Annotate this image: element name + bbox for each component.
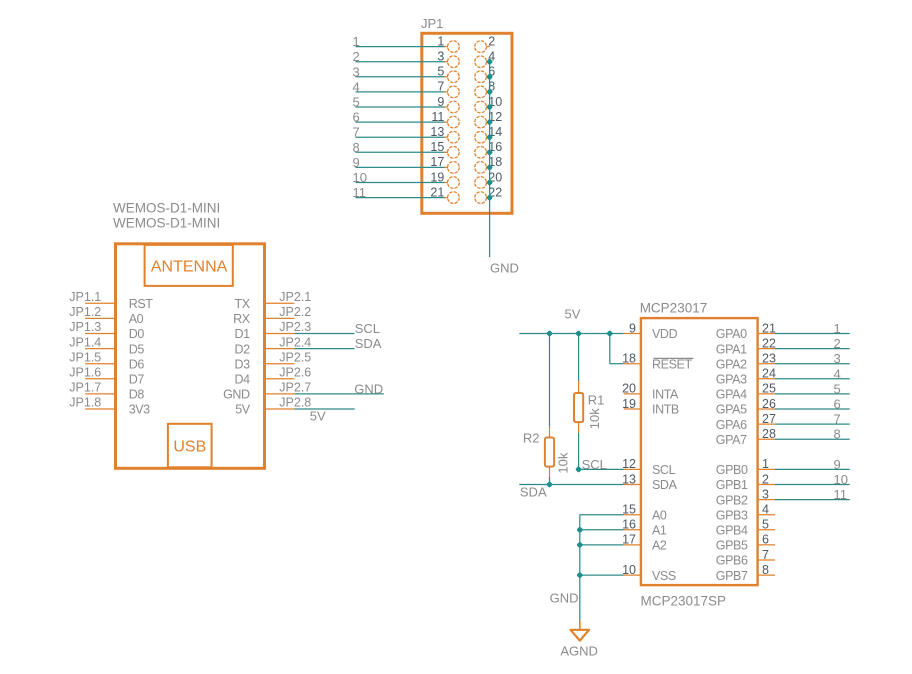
svg-text:JP1.8: JP1.8	[69, 396, 101, 410]
JP1 pin 21 stub	[444, 197, 448, 199]
junction JP1 pin 8	[486, 88, 493, 95]
svg-text:11: 11	[834, 487, 848, 502]
MCP pin 16 (A1) stub	[624, 529, 641, 531]
svg-text:SCL: SCL	[652, 463, 676, 477]
svg-text:3: 3	[353, 64, 360, 79]
svg-text:GPA4: GPA4	[716, 388, 747, 402]
WEMOS left pin JP1.5 stub	[85, 363, 115, 365]
JP1 pin 14 stub	[486, 136, 490, 138]
JP1 pin 13 stub	[444, 136, 448, 138]
wire net 11 to JP1 pin 21	[356, 197, 445, 199]
JP1 pin 12 stub	[486, 121, 490, 123]
svg-text:6: 6	[353, 110, 360, 125]
WEMOS right pin JP2.1 stub	[265, 302, 295, 304]
wire R1 top	[578, 334, 580, 382]
R1 lead bottom	[578, 421, 580, 434]
svg-text:6: 6	[834, 397, 841, 412]
R1 lead top	[578, 381, 580, 394]
connector JP1	[353, 16, 519, 275]
MCP pin 25 (GPA4) stub	[757, 393, 775, 395]
svg-text:SCL: SCL	[582, 457, 607, 472]
svg-text:JP2.8: JP2.8	[279, 396, 311, 410]
svg-text:21: 21	[762, 321, 776, 335]
svg-text:9: 9	[629, 321, 636, 335]
wire net 3 to JP1 pin 5	[356, 76, 445, 78]
svg-text:JP1.6: JP1.6	[69, 366, 101, 380]
svg-text:GPB0: GPB0	[716, 463, 748, 477]
JP1 pin 6 circle	[475, 71, 487, 83]
svg-text:17: 17	[430, 155, 444, 169]
svg-text:D4: D4	[235, 373, 251, 387]
svg-text:3V3: 3V3	[129, 403, 150, 417]
svg-text:GPB7: GPB7	[716, 569, 748, 583]
svg-text:A0: A0	[652, 508, 667, 522]
MCP pin 10 (VSS) stub	[624, 574, 641, 576]
resistor R2 body	[545, 438, 554, 467]
JP1 pin 14 circle	[475, 131, 487, 143]
svg-text:GPA5: GPA5	[716, 403, 747, 417]
svg-text:D2: D2	[235, 342, 251, 356]
svg-text:19: 19	[622, 397, 636, 411]
WEMOS left pin JP1.2 stub	[85, 317, 115, 319]
MCP pin 7 (GPB6) stub	[757, 559, 775, 561]
MCP pin 5 (GPB4) stub	[757, 529, 775, 531]
WEMOS right pin JP2.8 stub	[265, 408, 295, 410]
svg-text:A2: A2	[652, 539, 667, 553]
MCP pin 1 (GPB0) stub	[757, 468, 775, 470]
svg-text:9: 9	[437, 95, 444, 109]
junction 5V rail x=578.6	[575, 330, 582, 337]
svg-text:21: 21	[430, 185, 444, 199]
wire net 2 to JP1 pin 3	[356, 61, 445, 63]
svg-text:25: 25	[762, 382, 776, 396]
svg-text:28: 28	[762, 427, 776, 441]
svg-text:GPB6: GPB6	[716, 554, 748, 568]
R2 lead bottom	[549, 466, 551, 478]
WEMOS right pin JP2.3 stub	[265, 333, 295, 335]
svg-text:8: 8	[834, 427, 841, 442]
wire net 4 to JP1 pin 7	[356, 91, 445, 93]
IC U2 MCP23017	[519, 300, 849, 658]
svg-text:MCP23017: MCP23017	[640, 300, 708, 315]
R2 lead top	[549, 426, 551, 439]
svg-text:5V: 5V	[235, 403, 251, 417]
USB sub-box	[168, 424, 212, 468]
wire net 7 to JP1 pin 13	[356, 136, 445, 138]
svg-text:GPB3: GPB3	[716, 508, 748, 522]
svg-text:5: 5	[437, 65, 444, 79]
svg-text:5: 5	[353, 95, 360, 110]
svg-text:JP1.1: JP1.1	[69, 290, 101, 304]
MCP pin 13 (SDA) stub	[624, 484, 641, 486]
svg-text:20: 20	[622, 382, 636, 396]
JP1 pin 17 stub	[444, 166, 448, 168]
JP1 pin 3 circle	[448, 56, 460, 68]
svg-text:R2: R2	[523, 430, 540, 445]
JP1 pin 1 stub	[444, 46, 448, 48]
svg-text:3: 3	[762, 487, 769, 501]
svg-text:RESET: RESET	[652, 357, 692, 371]
svg-text:INTB: INTB	[652, 403, 679, 417]
svg-text:13: 13	[622, 472, 636, 486]
svg-text:10k: 10k	[556, 452, 571, 473]
wire net 5 from GPA4	[775, 393, 850, 395]
JP1 pin 10 stub	[486, 106, 490, 108]
svg-text:27: 27	[762, 412, 776, 426]
svg-text:18: 18	[622, 352, 636, 366]
MCP pin 4 (GPB3) stub	[757, 514, 775, 516]
svg-text:JP2.3: JP2.3	[279, 320, 311, 334]
JP1 pin 9 circle	[448, 101, 460, 113]
JP1 pin 21 circle	[448, 192, 460, 204]
svg-text:9: 9	[834, 457, 841, 472]
svg-text:16: 16	[622, 518, 636, 532]
svg-text:D1: D1	[235, 327, 251, 341]
svg-text:VDD: VDD	[652, 327, 678, 341]
svg-text:ANTENNA: ANTENNA	[151, 259, 228, 276]
svg-text:24: 24	[762, 367, 776, 381]
wire net 10 from GPB1	[775, 484, 850, 486]
svg-text:GPB1: GPB1	[716, 478, 748, 492]
wire net 8 from GPA7	[775, 438, 850, 440]
junction JP1 pin 12	[486, 119, 493, 126]
JP1 pin 11 circle	[448, 116, 460, 128]
wire SCL to MCP pin 12	[579, 468, 624, 470]
svg-text:2: 2	[834, 336, 841, 351]
svg-text:GPA7: GPA7	[716, 433, 747, 447]
wire net 9 to JP1 pin 17	[356, 166, 445, 168]
junction VSS	[576, 572, 583, 579]
svg-text:GPA6: GPA6	[716, 418, 747, 432]
JP1 pin 16 stub	[486, 151, 490, 153]
module U WEMOS-D1-MINI	[69, 201, 384, 469]
MCP pin 12 (SCL) stub	[624, 468, 641, 470]
svg-text:5V: 5V	[310, 408, 326, 423]
svg-text:9: 9	[353, 155, 360, 170]
JP1 pin 8 circle	[475, 86, 487, 98]
svg-text:23: 23	[762, 352, 776, 366]
JP1 connector body	[422, 33, 512, 213]
svg-text:10k: 10k	[587, 408, 602, 429]
MCP pin 26 (GPA5) stub	[757, 408, 775, 410]
svg-text:GPB4: GPB4	[716, 524, 748, 538]
wire SCL from WEMOS D1	[294, 333, 354, 335]
svg-text:1: 1	[353, 34, 360, 49]
wire A1 branch	[580, 529, 624, 531]
MCP pin 3 (GPB2) stub	[757, 499, 775, 501]
svg-text:3: 3	[437, 50, 444, 64]
wire net 4 from GPA3	[775, 378, 850, 380]
svg-text:GPB5: GPB5	[716, 539, 748, 553]
wire net 10 to JP1 pin 19	[356, 182, 445, 184]
svg-text:GPA2: GPA2	[716, 357, 747, 371]
junction 5V rail x=609.8	[606, 330, 613, 337]
JP1 pin 9 stub	[444, 106, 448, 108]
svg-text:2: 2	[353, 49, 360, 64]
AGND symbol lead	[579, 621, 581, 630]
svg-text:8: 8	[762, 563, 769, 577]
MCP pin 9 (VDD) stub	[624, 333, 641, 335]
svg-text:JP1.7: JP1.7	[69, 381, 101, 395]
svg-text:D5: D5	[129, 342, 145, 356]
junction A1	[576, 526, 583, 533]
svg-text:SCL: SCL	[355, 321, 380, 336]
MCP pin 18 (RESET) stub	[624, 363, 641, 365]
svg-text:4: 4	[834, 366, 841, 381]
svg-text:6: 6	[762, 533, 769, 547]
svg-text:GND: GND	[550, 591, 579, 606]
svg-text:INTA: INTA	[652, 388, 679, 402]
JP1 pin 18 stub	[486, 166, 490, 168]
WEMOS left pin JP1.1 stub	[85, 302, 115, 304]
junction SCL	[575, 466, 582, 473]
svg-text:D8: D8	[129, 388, 145, 402]
wire net 8 to JP1 pin 15	[356, 151, 445, 153]
WEMOS right pin JP2.5 stub	[265, 363, 295, 365]
svg-text:JP2.6: JP2.6	[279, 366, 311, 380]
svg-text:10: 10	[353, 170, 367, 185]
wire A2 branch	[580, 544, 624, 546]
svg-text:USB: USB	[173, 438, 206, 455]
MCP pin 8 (GPB7) stub	[757, 574, 775, 576]
JP1 pin 1 circle	[448, 41, 460, 53]
WEMOS right pin JP2.7 stub	[265, 393, 295, 395]
wire branch to RESET	[609, 334, 611, 364]
wire 5V rail	[519, 333, 623, 335]
MCP pin 22 (GPA1) stub	[757, 348, 775, 350]
JP1 pin 4 circle	[475, 56, 487, 68]
svg-text:D3: D3	[235, 357, 251, 371]
JP1 pin 22 stub	[486, 197, 490, 199]
junction SDA	[546, 481, 553, 488]
WEMOS left pin JP1.4 stub	[85, 348, 115, 350]
svg-text:GND: GND	[354, 381, 383, 396]
junction A2	[576, 541, 583, 548]
wire net 3 from GPA2	[775, 363, 850, 365]
svg-text:R1: R1	[588, 393, 605, 408]
JP1 pin 3 stub	[444, 61, 448, 63]
svg-text:7: 7	[834, 412, 841, 427]
svg-text:JP1.3: JP1.3	[69, 320, 101, 334]
JP1 pin 5 stub	[444, 76, 448, 78]
JP1 pin 12 circle	[475, 116, 487, 128]
svg-text:10: 10	[622, 563, 636, 577]
svg-text:7: 7	[353, 125, 360, 140]
ground symbol AGND	[571, 630, 590, 641]
JP1 pin 7 stub	[444, 91, 448, 93]
svg-text:D0: D0	[129, 327, 145, 341]
MCP pin 28 (GPA7) stub	[757, 438, 775, 440]
JP1 pin 10 circle	[475, 101, 487, 113]
svg-text:JP2.5: JP2.5	[279, 350, 311, 364]
svg-text:SDA: SDA	[652, 478, 678, 492]
junction JP1 pin 14	[486, 134, 493, 141]
svg-text:2: 2	[762, 472, 769, 486]
svg-text:11: 11	[431, 110, 444, 124]
wire A0 branch	[580, 514, 624, 516]
wire GND from WEMOS	[294, 393, 383, 395]
svg-text:D7: D7	[129, 373, 145, 387]
svg-text:5: 5	[762, 518, 769, 532]
svg-text:19: 19	[430, 170, 444, 184]
wire net 6 to JP1 pin 11	[356, 121, 445, 123]
svg-text:GPA3: GPA3	[716, 373, 747, 387]
junction JP1 pin 22	[486, 194, 493, 201]
MCP pin 20 (INTA) stub	[624, 393, 641, 395]
MCP pin 23 (GPA2) stub	[757, 363, 775, 365]
svg-text:15: 15	[430, 140, 444, 154]
WEMOS left pin JP1.7 stub	[85, 393, 115, 395]
svg-text:11: 11	[353, 185, 367, 200]
JP1 pin 11 stub	[444, 121, 448, 123]
svg-text:JP2.4: JP2.4	[279, 335, 311, 349]
svg-text:VSS: VSS	[652, 569, 676, 583]
MCP pin 2 (GPB1) stub	[757, 484, 775, 486]
svg-text:GPA0: GPA0	[716, 327, 747, 341]
svg-text:10: 10	[834, 472, 848, 487]
wire net 2 from GPA1	[775, 348, 850, 350]
svg-text:1: 1	[762, 457, 769, 471]
wire net 1 from GPA0	[775, 333, 850, 335]
svg-text:5: 5	[834, 381, 841, 396]
junction JP1 pin 6	[486, 73, 493, 80]
svg-text:JP2.2: JP2.2	[279, 305, 311, 319]
wire GND bus from JP1 even pins	[489, 62, 491, 258]
svg-text:12: 12	[622, 457, 636, 471]
wire net 5 to JP1 pin 9	[356, 106, 445, 108]
svg-text:D6: D6	[129, 357, 145, 371]
MCP pin 21 (GPA0) stub	[757, 333, 775, 335]
MCP pin 17 (A2) stub	[624, 544, 641, 546]
MCP pin 24 (GPA3) stub	[757, 378, 775, 380]
MCP pin 15 (A0) stub	[624, 514, 641, 516]
svg-text:JP1: JP1	[421, 16, 443, 31]
wire net 6 from GPA5	[775, 408, 850, 410]
JP1 pin 19 circle	[448, 177, 460, 189]
WEMOS left pin JP1.8 stub	[85, 408, 115, 410]
MCP23017 body	[641, 318, 758, 585]
JP1 pin 20 circle	[475, 177, 487, 189]
svg-text:WEMOS-D1-MINI: WEMOS-D1-MINI	[113, 215, 220, 230]
wire AGND bus vertical	[579, 515, 581, 621]
svg-text:SDA: SDA	[355, 336, 382, 351]
svg-text:JP2.7: JP2.7	[279, 381, 311, 395]
svg-text:WEMOS-D1-MINI: WEMOS-D1-MINI	[113, 201, 220, 216]
JP1 pin 2 circle	[475, 41, 487, 53]
svg-text:A1: A1	[652, 524, 667, 538]
wire 5V from WEMOS	[294, 408, 354, 410]
svg-text:JP2.1: JP2.1	[279, 290, 311, 304]
svg-text:RX: RX	[233, 312, 251, 326]
svg-text:22: 22	[762, 336, 776, 350]
JP1 pin 6 stub	[486, 76, 490, 78]
svg-text:JP1.2: JP1.2	[69, 305, 101, 319]
svg-text:TX: TX	[235, 297, 251, 311]
wire VSS branch	[580, 574, 624, 576]
svg-text:GND: GND	[223, 388, 250, 402]
svg-text:GPB2: GPB2	[716, 493, 748, 507]
wire SDA to MCP pin 13	[519, 484, 623, 486]
resistor R1 body	[574, 393, 583, 422]
MCP pin 6 (GPB5) stub	[757, 544, 775, 546]
junction JP1 pin 20	[486, 179, 493, 186]
svg-text:17: 17	[622, 533, 636, 547]
ANTENNA sub-box	[145, 245, 233, 286]
JP1 pin 8 stub	[486, 91, 490, 93]
svg-text:7: 7	[437, 80, 444, 94]
junction JP1 pin 16	[486, 149, 493, 156]
wire SDA from WEMOS D2	[294, 348, 354, 350]
wire R1 bottom	[578, 433, 580, 469]
JP1 pin 19 stub	[444, 182, 448, 184]
svg-text:3: 3	[834, 351, 841, 366]
JP1 pin 2 stub	[486, 46, 490, 48]
JP1 pin 18 circle	[475, 162, 487, 174]
WEMOS left pin JP1.6 stub	[85, 378, 115, 380]
svg-text:GND: GND	[490, 261, 519, 276]
junction 5V rail x=549.5	[546, 330, 553, 337]
WEMOS right pin JP2.2 stub	[265, 317, 295, 319]
svg-text:1: 1	[437, 34, 444, 48]
JP1 pin 5 circle	[448, 71, 460, 83]
svg-text:JP1.5: JP1.5	[69, 350, 101, 364]
WEMOS left pin JP1.3 stub	[85, 333, 115, 335]
junction JP1 pin 4	[486, 58, 493, 65]
svg-text:AGND: AGND	[560, 644, 598, 659]
svg-text:SDA: SDA	[520, 484, 547, 499]
JP1 pin 16 circle	[475, 146, 487, 158]
svg-text:MCP23017SP: MCP23017SP	[641, 594, 727, 609]
JP1 pin 7 circle	[448, 86, 460, 98]
WEMOS right pin JP2.6 stub	[265, 378, 295, 380]
svg-text:26: 26	[762, 397, 776, 411]
junction JP1 pin 10	[486, 103, 493, 110]
svg-text:RST: RST	[129, 297, 154, 311]
JP1 pin 15 stub	[444, 151, 448, 153]
svg-text:15: 15	[622, 503, 636, 517]
JP1 pin 20 stub	[486, 182, 490, 184]
wire net 11 from GPB2	[775, 499, 850, 501]
JP1 pin 4 stub	[486, 61, 490, 63]
wire R2 top	[549, 334, 551, 427]
svg-text:4: 4	[762, 503, 769, 517]
RESET overline	[654, 357, 694, 359]
MCP pin 27 (GPA6) stub	[757, 423, 775, 425]
JP1 pin 13 circle	[448, 131, 460, 143]
JP1 pin 17 circle	[448, 162, 460, 174]
wire net 1 to JP1 pin 1	[356, 46, 445, 48]
svg-text:8: 8	[353, 140, 360, 155]
WEMOS right pin JP2.4 stub	[265, 348, 295, 350]
JP1 pin 15 circle	[448, 146, 460, 158]
svg-text:4: 4	[353, 79, 360, 94]
svg-text:13: 13	[430, 125, 444, 139]
svg-text:7: 7	[762, 548, 769, 562]
svg-text:2: 2	[488, 34, 495, 48]
wire R2 bottom	[549, 477, 551, 485]
svg-text:GPA1: GPA1	[716, 342, 747, 356]
WEMOS body	[116, 244, 265, 468]
svg-text:JP1.4: JP1.4	[69, 335, 101, 349]
MCP pin 19 (INTB) stub	[624, 408, 641, 410]
wire net 9 from GPB0	[775, 468, 850, 470]
junction JP1 pin 18	[486, 164, 493, 171]
svg-text:1: 1	[834, 321, 841, 336]
svg-text:A0: A0	[129, 312, 144, 326]
wire net 7 from GPA6	[775, 423, 850, 425]
JP1 pin 22 circle	[475, 192, 487, 204]
svg-text:5V: 5V	[565, 306, 581, 321]
